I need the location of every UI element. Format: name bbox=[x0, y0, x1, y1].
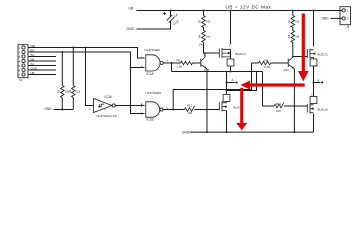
junction UB/left chain bbox=[230, 10, 232, 12]
wire pin6 stub bbox=[29, 69, 57, 71]
svg-text:A: A bbox=[232, 78, 234, 82]
junction EN-R1 bbox=[61, 51, 63, 53]
resistor R11 bbox=[263, 102, 308, 113]
MOSFET left N (low side) bbox=[219, 102, 242, 113]
wire left P gate bbox=[204, 52, 220, 54]
svg-text:R6: R6 bbox=[265, 59, 269, 63]
svg-text:10k: 10k bbox=[295, 35, 300, 39]
Z-wire node A routing bbox=[227, 72, 257, 91]
svg-text:NL37W200: NL37W200 bbox=[145, 48, 161, 52]
svg-text:GND: GND bbox=[45, 107, 53, 111]
svg-text:R7: R7 bbox=[287, 19, 291, 23]
svg-text:R4: R4 bbox=[198, 34, 202, 38]
svg-text:BUZ171: BUZ171 bbox=[236, 52, 247, 56]
box under left P bbox=[227, 59, 234, 66]
svg-text:R12: R12 bbox=[187, 104, 193, 108]
wire DIR down to inverter bbox=[86, 48, 94, 106]
svg-text:NL37W214-1/8: NL37W214-1/8 bbox=[97, 114, 118, 118]
NAND IC1B bbox=[141, 91, 169, 121]
svg-text:BUZ11A: BUZ11A bbox=[318, 107, 328, 111]
svg-text:X1: X1 bbox=[19, 78, 23, 82]
GND rail bottom bbox=[190, 131, 314, 133]
node B vertical bbox=[313, 72, 315, 97]
wire right N source to ground rail bbox=[313, 114, 315, 133]
resistor R8 (lower right stack) bbox=[287, 28, 300, 57]
svg-text:2.2K: 2.2K bbox=[264, 65, 270, 69]
node A stub label bbox=[226, 82, 228, 84]
resistor R6 bbox=[252, 59, 289, 69]
svg-text:IC1A: IC1A bbox=[147, 72, 155, 76]
svg-text:10k: 10k bbox=[76, 90, 81, 94]
Q31 emitter to GND bbox=[293, 69, 295, 132]
wire pin3 stub bbox=[29, 56, 57, 58]
svg-text:GND: GND bbox=[322, 17, 330, 21]
wire inverter out to IC1B pin1 bbox=[115, 105, 144, 107]
NAND IC1A bbox=[141, 48, 169, 76]
svg-text:BUZ171: BUZ171 bbox=[318, 52, 329, 56]
svg-text:10k: 10k bbox=[199, 43, 204, 47]
inverter IC3A bbox=[89, 95, 117, 118]
wire pin5 stub bbox=[29, 65, 57, 67]
wire pin2 EN row bbox=[29, 52, 131, 68]
svg-text:GND: GND bbox=[182, 130, 190, 134]
junction UB/right chain bbox=[313, 10, 315, 12]
svg-text:R1: R1 bbox=[57, 89, 61, 93]
resistor R12 bbox=[163, 104, 219, 116]
resistor R4 (lower left stack) bbox=[198, 28, 211, 54]
transistor Q31 bbox=[284, 57, 295, 72]
Q30 emitter to GND bbox=[206, 69, 208, 132]
MOSFET right P (high side) bbox=[307, 11, 328, 59]
connector pin labels bbox=[31, 44, 37, 75]
MOSFET left P (high side) bbox=[219, 11, 246, 59]
svg-text:IC1B: IC1B bbox=[147, 117, 154, 121]
transistor Q30 bbox=[163, 53, 209, 72]
line1 (node A upper wire) bbox=[172, 71, 263, 73]
wire EN to IC1A pin2 bbox=[131, 67, 145, 69]
UB rail bbox=[137, 10, 342, 12]
svg-text:R11: R11 bbox=[276, 102, 281, 106]
resistor R3 (upper left stack) bbox=[198, 11, 211, 28]
GND stub wire bbox=[137, 24, 171, 30]
red arrow vertical left (current to GND) bbox=[237, 88, 246, 129]
svg-text:B: B bbox=[318, 78, 320, 82]
wire right P gate bbox=[293, 56, 307, 58]
svg-text:NL37W200: NL37W200 bbox=[146, 91, 162, 95]
MOSFET right N (low side) bbox=[307, 104, 328, 114]
svg-text:R3: R3 bbox=[198, 19, 202, 23]
connector X1 bbox=[18, 45, 28, 82]
connector J1 bbox=[340, 7, 351, 29]
node B stub label bbox=[313, 82, 315, 84]
junction node A bbox=[230, 71, 232, 73]
wire pin1 DIR row bbox=[29, 48, 145, 59]
wire left P drain to node A bbox=[230, 66, 232, 72]
junction UB/right stack bbox=[292, 10, 294, 12]
red arrow horizontal (current through motor) bbox=[242, 81, 305, 89]
box above right N bbox=[310, 97, 317, 104]
svg-text:UB = 12V DC Max.: UB = 12V DC Max. bbox=[226, 5, 274, 10]
junction DIR-R2 bbox=[72, 47, 74, 49]
node junction EN bbox=[130, 67, 132, 69]
resistor R7 (upper right stack) bbox=[287, 11, 300, 28]
capacitor C6 bbox=[163, 11, 180, 30]
box under right P bbox=[310, 59, 317, 66]
GND wire lower-left bbox=[54, 109, 74, 111]
resistor R1 bbox=[57, 52, 70, 110]
junction ground rail bbox=[226, 131, 228, 133]
box above left N bbox=[223, 95, 230, 102]
svg-text:10k: 10k bbox=[206, 20, 211, 24]
resistor R2 bbox=[68, 48, 81, 110]
wire IC1A out down to line1 bbox=[171, 63, 173, 72]
wire left N source to ground rail bbox=[226, 112, 228, 132]
svg-text:2.2K: 2.2K bbox=[177, 65, 183, 69]
wire EN down to IC1B pin2 bbox=[131, 68, 145, 114]
wire pin7 stub bbox=[29, 74, 57, 76]
vertical from line1 corner to R11 row bbox=[262, 72, 264, 107]
IC1A out junction bbox=[171, 62, 173, 64]
svg-text:R5: R5 bbox=[177, 59, 181, 63]
wire pin4 stub bbox=[29, 60, 57, 62]
red arrow vertical right (current into bridge) bbox=[299, 14, 308, 80]
svg-text:10k: 10k bbox=[206, 35, 211, 39]
svg-text:Q31: Q31 bbox=[284, 68, 290, 72]
svg-text:J1: J1 bbox=[346, 25, 350, 29]
svg-text:IC3A: IC3A bbox=[105, 95, 113, 99]
GND net label at J1 pin2 bbox=[331, 17, 343, 19]
svg-text:100: 100 bbox=[276, 109, 281, 113]
IC1B out route up bbox=[173, 63, 251, 110]
svg-text:UB: UB bbox=[129, 7, 134, 11]
wire right P drain to node B bbox=[313, 57, 315, 71]
svg-text:10k: 10k bbox=[295, 20, 300, 24]
svg-text:100: 100 bbox=[188, 111, 193, 115]
node A vertical bbox=[226, 72, 228, 95]
svg-text:R8: R8 bbox=[287, 34, 291, 38]
svg-text:GND: GND bbox=[127, 27, 135, 31]
junction DIR-inverter bbox=[85, 47, 87, 49]
svg-text:R2: R2 bbox=[68, 89, 72, 93]
junction UB/left stack bbox=[203, 10, 205, 12]
